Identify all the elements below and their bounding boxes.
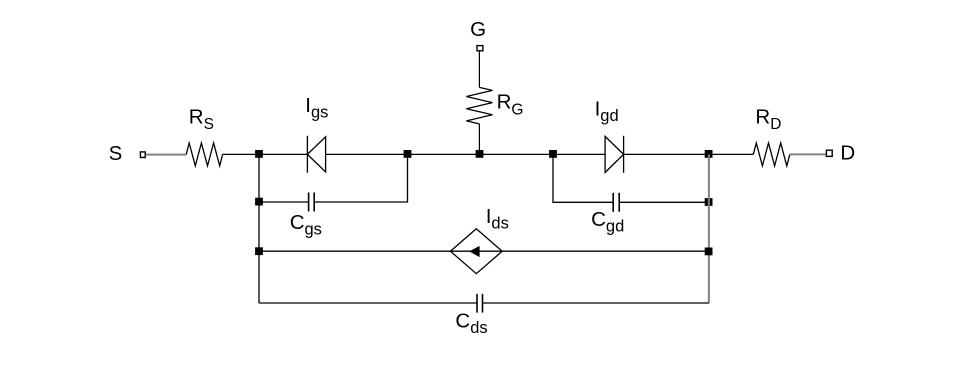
capacitor Cds bbox=[477, 294, 483, 313]
resistor RD bbox=[753, 143, 790, 166]
wire RG to gate node bbox=[478, 124, 480, 154]
wire Cds row right bbox=[483, 302, 710, 304]
node left Ids row bbox=[255, 247, 263, 255]
svg-text:G: G bbox=[470, 18, 486, 41]
wire node C to diode Igd bbox=[553, 153, 605, 155]
wire RS to node A bbox=[223, 153, 259, 155]
wire Cds row left bbox=[259, 302, 477, 304]
terminal D bbox=[826, 150, 832, 156]
wire node A to diode Igs bbox=[259, 153, 307, 155]
node D bbox=[705, 150, 713, 158]
diode Igd bbox=[605, 136, 624, 173]
node left Cgs row bbox=[255, 198, 263, 206]
node C bbox=[549, 150, 557, 158]
wire left vertical bbox=[258, 154, 260, 303]
wire diode Igs to node B bbox=[326, 153, 408, 155]
wire Ids row bbox=[259, 250, 709, 252]
svg-text:D: D bbox=[840, 141, 855, 164]
capacitor Cgd bbox=[613, 193, 619, 212]
svg-text:S: S bbox=[109, 142, 123, 165]
wire diode Igd to node D bbox=[624, 153, 709, 155]
wire RD lead bbox=[790, 153, 826, 155]
wire node B to gate node bbox=[408, 153, 480, 155]
resistor RS bbox=[186, 143, 222, 166]
wire gate node to node C bbox=[480, 153, 554, 155]
current source Ids bbox=[450, 229, 502, 274]
wire Cgs row right bbox=[314, 154, 407, 202]
node right Ids row bbox=[705, 248, 713, 256]
wire node C drop bbox=[553, 154, 613, 202]
terminal S bbox=[140, 152, 145, 158]
terminal G bbox=[477, 46, 483, 51]
wire right vertical bbox=[708, 154, 710, 303]
wire node D to resistor RD bbox=[709, 153, 753, 155]
node gate bbox=[476, 150, 484, 158]
capacitor Cgs bbox=[309, 193, 315, 212]
node A bbox=[255, 150, 263, 158]
wire G lead bbox=[478, 51, 480, 87]
node B bbox=[404, 150, 412, 158]
diode Igs bbox=[307, 136, 325, 173]
wire Cgd row right bbox=[619, 201, 709, 203]
wire S lead bbox=[146, 154, 186, 156]
node right Cgd row bbox=[705, 198, 713, 206]
resistor RG bbox=[466, 87, 492, 124]
wire Cgs row left bbox=[259, 201, 309, 203]
